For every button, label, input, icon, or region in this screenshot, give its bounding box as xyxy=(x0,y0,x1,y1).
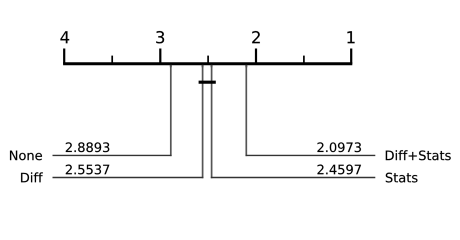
method label Stats xyxy=(386,173,418,183)
major tick 2 xyxy=(255,49,257,64)
rank value 2.0973 (Diff+Stats) xyxy=(317,142,361,152)
axis label 3 xyxy=(156,31,164,43)
junction stub Diff+Stats xyxy=(245,65,247,68)
minor tick 3.5 xyxy=(111,56,113,64)
connector None vertical xyxy=(170,65,172,156)
method label Diff+Stats xyxy=(386,150,451,160)
rank value 2.8893 (None) xyxy=(66,142,109,152)
connector Diff horizontal xyxy=(53,177,204,179)
method label Diff xyxy=(21,172,43,182)
minor tick 2.5 xyxy=(207,56,209,64)
axis label 4 xyxy=(60,31,69,43)
axis label 1 xyxy=(347,31,354,43)
junction stub Stats xyxy=(211,65,213,68)
connector None horizontal xyxy=(53,154,172,156)
junction stub None xyxy=(170,65,172,68)
junction stub Diff xyxy=(202,65,204,68)
rank value 2.5537 (Diff) xyxy=(66,165,109,175)
method label None xyxy=(10,151,42,161)
connector Stats horizontal xyxy=(211,177,375,179)
axis line xyxy=(63,62,352,65)
axis label 2 xyxy=(252,31,260,43)
major tick 1 xyxy=(350,49,352,64)
connector Diff+Stats vertical xyxy=(245,65,247,156)
connector Diff+Stats horizontal xyxy=(246,154,376,156)
minor tick 1.5 xyxy=(303,56,305,64)
clique bar (Diff and Stats not significantly different) xyxy=(199,81,216,84)
major tick 4 xyxy=(63,49,65,64)
connector Diff vertical xyxy=(202,65,204,178)
rank value 2.4597 (Stats) xyxy=(317,165,360,175)
major tick 3 xyxy=(159,49,161,64)
connector Stats vertical xyxy=(211,65,213,178)
